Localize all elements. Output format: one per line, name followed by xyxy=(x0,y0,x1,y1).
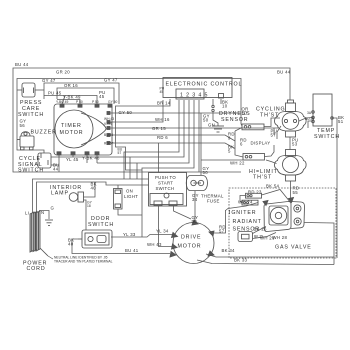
svg-text:9: 9 xyxy=(228,136,231,141)
svg-text:45: 45 xyxy=(160,90,164,94)
svg-text:40: 40 xyxy=(68,242,74,247)
svg-text:50: 50 xyxy=(192,219,198,224)
svg-text:BK 54: BK 54 xyxy=(266,184,280,189)
svg-text:DRIVE: DRIVE xyxy=(181,234,201,240)
svg-text:51: 51 xyxy=(338,119,344,124)
svg-text:N: N xyxy=(41,210,44,215)
svg-text:FUSE: FUSE xyxy=(207,199,220,204)
svg-text:LIGHT: LIGHT xyxy=(124,194,138,199)
svg-text:ELECTRONIC CONTROL: ELECTRONIC CONTROL xyxy=(166,82,243,88)
svg-text:SWITCH: SWITCH xyxy=(156,186,175,191)
svg-text:RADIANT: RADIANT xyxy=(233,219,262,225)
svg-text:50: 50 xyxy=(203,170,209,175)
svg-text:P 50: P 50 xyxy=(76,100,83,104)
svg-text:BUZZER: BUZZER xyxy=(31,129,57,135)
svg-text:SWITCH: SWITCH xyxy=(18,168,44,174)
svg-text:BK 34: BK 34 xyxy=(222,248,236,253)
svg-text:Y-BK 46: Y-BK 46 xyxy=(82,156,100,161)
svg-text:PUSH TO: PUSH TO xyxy=(155,175,176,180)
svg-text:34: 34 xyxy=(192,197,198,202)
svg-text:START: START xyxy=(158,181,173,186)
svg-text:WH 24: WH 24 xyxy=(238,199,253,204)
svg-text:TIMER: TIMER xyxy=(61,123,82,129)
svg-text:TH'ST: TH'ST xyxy=(253,175,272,181)
svg-text:DISPLAY: DISPLAY xyxy=(251,140,271,145)
svg-text:SWITCH: SWITCH xyxy=(314,134,340,140)
svg-text:RD 23: RD 23 xyxy=(248,190,262,195)
svg-text:1 2 3 4 5: 1 2 3 4 5 xyxy=(180,93,208,99)
svg-text:BU 45: BU 45 xyxy=(104,133,113,137)
svg-text:53: 53 xyxy=(292,142,298,147)
svg-text:45: 45 xyxy=(99,94,105,99)
svg-text:GY 50: GY 50 xyxy=(108,100,117,104)
svg-text:WH 43: WH 43 xyxy=(104,117,114,121)
svg-text:TH'ST: TH'ST xyxy=(260,113,279,119)
svg-text:57: 57 xyxy=(271,133,277,138)
svg-text:LAMP: LAMP xyxy=(51,191,69,197)
svg-text:40: 40 xyxy=(91,186,97,191)
svg-text:BU 44: BU 44 xyxy=(15,62,29,67)
svg-text:LI: LI xyxy=(25,211,29,216)
svg-text:GR 15: GR 15 xyxy=(152,126,166,131)
svg-text:YL 33: YL 33 xyxy=(123,232,136,237)
svg-text:55: 55 xyxy=(293,190,299,195)
svg-text:MOTOR: MOTOR xyxy=(178,244,202,250)
svg-text:GAS VALVE: GAS VALVE xyxy=(275,245,312,251)
svg-text:BK 33: BK 33 xyxy=(234,257,248,262)
svg-text:57: 57 xyxy=(219,229,225,234)
svg-text:GY 47: GY 47 xyxy=(104,78,118,83)
svg-text:GY 50: GY 50 xyxy=(119,110,133,115)
svg-text:ON: ON xyxy=(126,189,133,194)
svg-text:RD 57: RD 57 xyxy=(104,142,114,146)
svg-text:PU 45: PU 45 xyxy=(48,90,62,95)
svg-text:G: G xyxy=(51,206,55,211)
svg-text:BU 44: BU 44 xyxy=(277,70,291,75)
svg-text:GY 47: GY 47 xyxy=(42,78,56,83)
svg-text:WH 28: WH 28 xyxy=(273,235,288,240)
svg-text:57: 57 xyxy=(118,151,122,155)
svg-text:6: 6 xyxy=(240,142,243,147)
svg-text:44: 44 xyxy=(53,167,59,172)
svg-text:V-GR: V-GR xyxy=(104,122,113,126)
svg-text:3A: 3A xyxy=(307,111,312,115)
svg-text:Y-BO 49: Y-BO 49 xyxy=(56,100,69,104)
svg-text:GR 20: GR 20 xyxy=(56,70,70,75)
svg-text:BR 14: BR 14 xyxy=(157,101,171,106)
svg-text:10: 10 xyxy=(242,111,248,116)
svg-text:BK 26: BK 26 xyxy=(254,227,268,232)
svg-text:TRACER AND TIN PLATED TERMINAL: TRACER AND TIN PLATED TERMINAL xyxy=(54,259,113,263)
svg-text:IGNITER: IGNITER xyxy=(229,210,256,216)
svg-text:YL 45: YL 45 xyxy=(66,157,79,162)
svg-text:MOTOR: MOTOR xyxy=(60,130,84,136)
svg-text:SWITCH: SWITCH xyxy=(18,112,44,118)
svg-text:BU 41: BU 41 xyxy=(125,248,139,253)
svg-text:P 50: P 50 xyxy=(92,100,99,104)
svg-text:WH 16: WH 16 xyxy=(155,117,170,122)
svg-text:10: 10 xyxy=(222,104,228,109)
svg-text:SWITCH: SWITCH xyxy=(88,222,114,228)
svg-text:18: 18 xyxy=(87,204,91,208)
svg-text:YL 34: YL 34 xyxy=(156,229,169,234)
svg-text:SENSOR: SENSOR xyxy=(221,117,248,123)
svg-text:CORD: CORD xyxy=(27,266,46,272)
svg-text:Y-BK 49: Y-BK 49 xyxy=(63,94,81,99)
svg-text:56: 56 xyxy=(20,123,26,128)
svg-text:5: 5 xyxy=(228,149,231,154)
svg-text:GN: GN xyxy=(208,123,215,128)
svg-text:WH 22: WH 22 xyxy=(230,161,245,166)
svg-text:WH 43: WH 43 xyxy=(147,242,162,247)
svg-text:OR 16: OR 16 xyxy=(64,83,78,88)
svg-text:BU 29: BU 29 xyxy=(305,117,314,121)
svg-text:RD 6: RD 6 xyxy=(157,135,168,140)
